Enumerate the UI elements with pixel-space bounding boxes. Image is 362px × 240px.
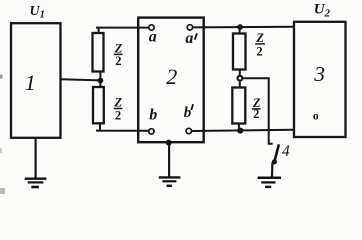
terminal b [149, 129, 154, 134]
terminal a [149, 25, 154, 30]
value label Z/2 right bottom [252, 96, 261, 121]
wire down from left resistor to terminal b [96, 123, 149, 131]
value label Z/2 right top [255, 31, 265, 58]
switch pivot dot [272, 159, 277, 164]
wire block1 output to divider midpoint [61, 79, 101, 80]
stub resistor to tap node [239, 70, 241, 77]
svg-text:2: 2 [253, 107, 259, 121]
svg-text:b: b [184, 105, 192, 121]
stub node to right top resistor [239, 27, 241, 34]
resistor Z/2 right bottom [232, 88, 245, 124]
resistor Z/2 right top [233, 34, 246, 70]
switch 4 blade [275, 144, 279, 160]
resistor Z/2 left top [93, 33, 104, 72]
block 2 [138, 18, 204, 143]
tap node circle [238, 76, 243, 81]
svg-text:Z: Z [114, 41, 123, 55]
svg-text:2: 2 [166, 64, 177, 89]
ground wire under block 2 [168, 143, 170, 177]
stub lower right resistor to b' wire [238, 124, 240, 131]
svg-text:Z: Z [255, 31, 264, 45]
wire switch to ground [271, 163, 274, 178]
terminal a' [187, 25, 192, 30]
svg-text:4: 4 [282, 143, 290, 160]
node on block 2 bottom edge [166, 140, 172, 146]
ground wire under block 1 [34, 138, 36, 178]
svg-text:o: o [313, 111, 319, 123]
ground under switch [258, 178, 282, 187]
svg-text:3: 3 [313, 62, 325, 86]
svg-text:2: 2 [256, 45, 262, 59]
ground under block 2 [159, 177, 181, 185]
block 3 [294, 22, 346, 137]
node junction a' wire / right divider [237, 24, 243, 30]
stub upper resistor to node [99, 72, 101, 88]
node junction of left divider [98, 78, 104, 84]
scan artifact marks at left edge [0, 75, 3, 79]
svg-text:2: 2 [115, 109, 121, 123]
svg-text:a: a [149, 29, 157, 46]
svg-text:2: 2 [115, 54, 121, 68]
stub tap node to lower resistor [239, 81, 241, 88]
svg-text:b: b [149, 107, 157, 124]
wire b' to block 3 [192, 130, 295, 131]
block 1 [11, 23, 61, 138]
ground under block 1 [25, 179, 47, 187]
terminal b' [186, 128, 191, 133]
svg-text:1: 1 [25, 70, 36, 95]
svg-text:a: a [185, 30, 193, 47]
svg-text:Z: Z [114, 96, 123, 110]
wire tap node to switch [242, 78, 272, 144]
value label Z/2 left top [114, 41, 123, 68]
value label Z/2 left bottom [114, 96, 123, 123]
node junction b' wire / right divider [237, 128, 243, 134]
wire up from left resistor to terminal a [96, 28, 149, 34]
resistor Z/2 left bottom [93, 87, 104, 123]
wire a' to block 3 [193, 26, 294, 29]
